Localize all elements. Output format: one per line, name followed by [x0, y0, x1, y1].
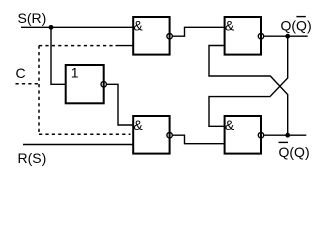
inverter U1 — [66, 65, 104, 103]
svg-text:S(R): S(R) — [18, 10, 47, 26]
svg-text:&: & — [133, 18, 143, 34]
wire U2 output to U3 upper input — [173, 27, 225, 36]
wire C dashed to G3 middle input — [39, 133, 131, 135]
svg-text:&: & — [133, 117, 143, 133]
bubble U5 output — [258, 133, 263, 138]
bubble inverter output — [101, 82, 106, 87]
wire S junction to inverter input — [51, 27, 66, 84]
wire U4 output to U5 lower input — [173, 135, 225, 144]
bubble U3 output — [258, 34, 263, 39]
svg-text:C: C — [16, 65, 26, 81]
wire R(S) input — [23, 144, 133, 146]
wire feedback Q to U5 upper input (crossover) — [209, 36, 288, 126]
wire C dashed vertical — [38, 46, 40, 135]
overline of Qbar in Qbar(Q) — [279, 141, 289, 143]
NAND gate U2 (top-left) — [133, 17, 169, 55]
wire S(R) input — [21, 26, 133, 28]
node Qbar junction — [285, 133, 290, 138]
wire feedback Qbar to U3 lower input (crossover) — [209, 46, 288, 136]
svg-text:1: 1 — [71, 64, 79, 80]
svg-text:&: & — [225, 117, 235, 133]
NAND gate U5 (bottom-right) — [225, 116, 261, 154]
svg-text:Q(Q): Q(Q) — [281, 17, 312, 33]
wire Qbar output — [264, 134, 306, 136]
wire solid tail into G1 lower input — [116, 45, 134, 47]
bubble U2 output — [167, 34, 172, 39]
svg-text:Q(Q): Q(Q) — [279, 144, 310, 160]
svg-text:R(S): R(S) — [18, 150, 47, 166]
wire C dashed to G1 lower input — [39, 45, 116, 47]
node Q junction — [285, 34, 290, 39]
bubble U4 output — [167, 133, 172, 138]
wire inverter output to G3 upper input — [107, 84, 133, 125]
wire C dashed stub — [16, 83, 40, 85]
svg-text:&: & — [225, 18, 235, 34]
node S junction — [49, 25, 54, 30]
wire Q output — [264, 35, 307, 37]
overline of Qbar in Q(Qbar) — [296, 16, 305, 18]
NAND gate U4 (bottom-left) — [133, 116, 169, 154]
NAND gate U3 (top-right) — [225, 17, 261, 55]
